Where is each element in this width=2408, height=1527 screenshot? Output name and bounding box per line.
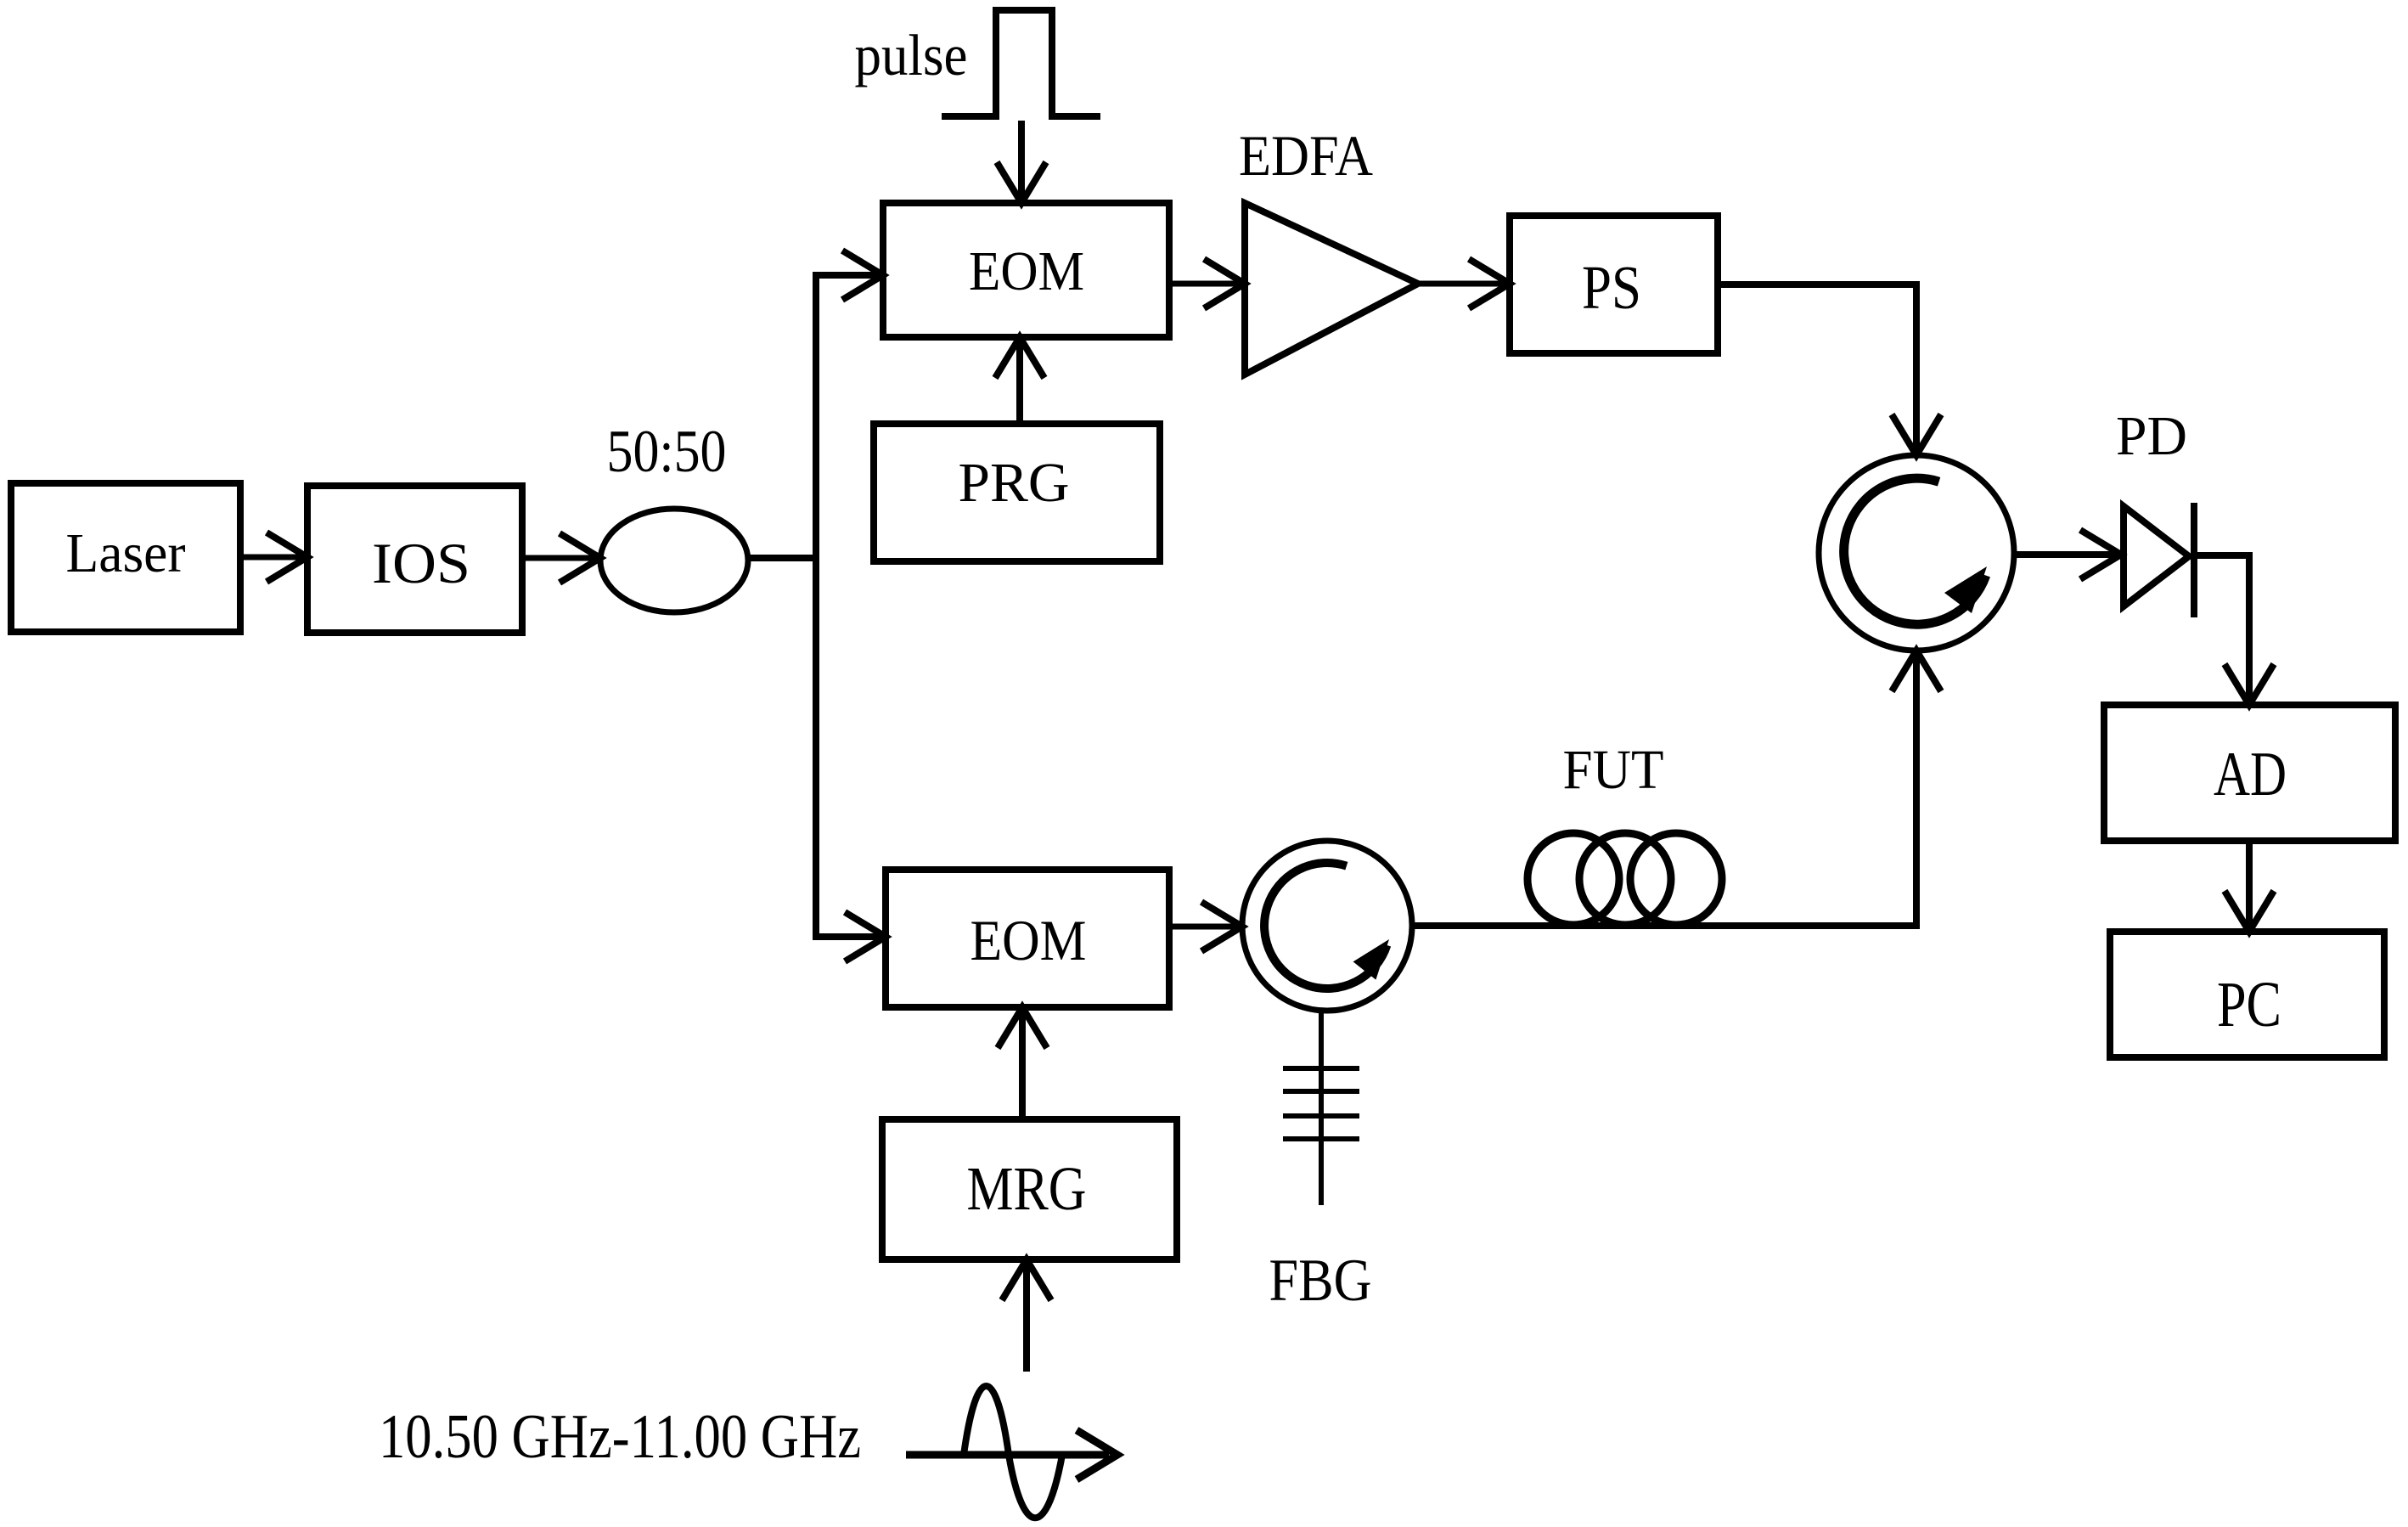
pulse generator box PRG	[874, 424, 1160, 561]
amplifier EDFA triangle	[1245, 203, 1418, 375]
svg-text:EOM: EOM	[969, 240, 1084, 302]
svg-text:EOM: EOM	[971, 908, 1087, 972]
wire RF source to MRG	[1002, 1259, 1051, 1372]
wire FUT to circulator C1	[1892, 651, 1941, 929]
fiber bragg grating FBG	[1283, 1011, 1359, 1205]
wire Laser to IOS	[240, 532, 307, 582]
wire EOM1 to EDFA	[1169, 259, 1245, 308]
computer box PC	[2110, 932, 2384, 1057]
acquisition box AD	[2104, 705, 2395, 841]
wire MRG to EOM2	[998, 1007, 1047, 1119]
svg-text:FBG: FBG	[1269, 1248, 1372, 1314]
wire branch vertical	[813, 275, 819, 937]
wire pulse to EOM1	[997, 121, 1046, 203]
wire coupler to branch node	[748, 555, 816, 561]
isolator box IOS	[307, 486, 522, 633]
svg-text:pulse: pulse	[855, 23, 968, 87]
modulator box EOM1	[883, 203, 1169, 337]
wire branch to EOM2	[813, 912, 886, 961]
circulator C2	[1242, 841, 1412, 1011]
svg-text:FUT: FUT	[1563, 739, 1664, 801]
svg-text:PRG: PRG	[959, 452, 1070, 514]
pulse waveform	[942, 10, 1100, 116]
modulator box EOM2	[886, 870, 1169, 1007]
coupler 50:50 ellipse	[600, 509, 748, 612]
svg-text:EDFA: EDFA	[1239, 123, 1373, 188]
circulator C1	[1819, 455, 2014, 651]
wire PD to AD	[2194, 555, 2274, 705]
laser source box Laser	[11, 483, 240, 632]
svg-text:10.50 GHz-11.00 GHz: 10.50 GHz-11.00 GHz	[379, 1402, 861, 1472]
wire AD to PC	[2225, 841, 2274, 932]
svg-text:50:50: 50:50	[607, 419, 727, 485]
microwave generator box MRG	[882, 1119, 1177, 1259]
wire PRG to EOM1	[995, 337, 1044, 424]
wire branch to EOM1	[813, 251, 883, 300]
svg-text:Laser: Laser	[66, 522, 186, 584]
RF sine source	[906, 1386, 1117, 1518]
wire EOM2 to circulator C2	[1169, 902, 1242, 951]
wire EDFA to PS	[1418, 259, 1510, 308]
polarization scrambler box PS	[1510, 216, 1718, 353]
svg-text:PD: PD	[2116, 405, 2187, 467]
svg-text:PS: PS	[1582, 253, 1641, 322]
photodiode PD	[2124, 503, 2194, 617]
wire IOS to coupler	[522, 533, 600, 583]
fiber coil FUT	[1528, 833, 1722, 925]
wire PS to circulator C1	[1718, 285, 1941, 455]
svg-text:AD: AD	[2214, 740, 2287, 809]
wire circulator C1 to PD	[2014, 530, 2121, 579]
wire circulator C2 to FUT line	[1412, 922, 1920, 929]
svg-text:PC: PC	[2217, 969, 2281, 1040]
svg-text:IOS: IOS	[372, 531, 470, 595]
svg-text:MRG: MRG	[967, 1154, 1087, 1223]
